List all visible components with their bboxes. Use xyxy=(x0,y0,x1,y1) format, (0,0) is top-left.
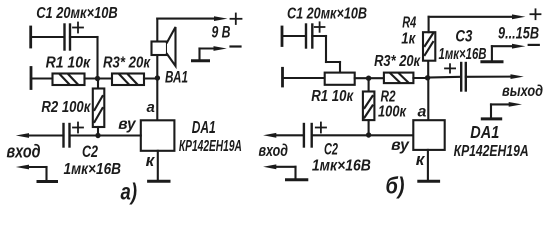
svg-text:R3* 20к: R3* 20к xyxy=(374,53,421,70)
svg-text:ву: ву xyxy=(391,137,410,154)
svg-text:1мк×16В: 1мк×16В xyxy=(312,158,371,175)
svg-text:С3: С3 xyxy=(455,26,472,45)
svg-text:C1 20мк×10В: C1 20мк×10В xyxy=(36,5,118,22)
svg-text:DA1: DA1 xyxy=(192,117,216,137)
svg-text:а: а xyxy=(418,103,427,120)
svg-text:R3* 20к: R3* 20к xyxy=(103,55,151,72)
svg-text:к: к xyxy=(416,150,426,169)
svg-text:С2: С2 xyxy=(324,141,338,159)
svg-text:R2 100к: R2 100к xyxy=(41,99,91,116)
svg-text:б): б) xyxy=(386,173,405,199)
svg-text:КР142ЕН19А: КР142ЕН19А xyxy=(179,138,242,155)
svg-text:ву: ву xyxy=(118,116,137,133)
svg-text:1мк×16В: 1мк×16В xyxy=(439,46,487,63)
svg-text:а: а xyxy=(147,99,155,116)
svg-text:C1 20мк×10В: C1 20мк×10В xyxy=(287,6,367,23)
svg-text:1к: 1к xyxy=(401,31,416,48)
svg-text:R1 10к: R1 10к xyxy=(311,88,354,105)
svg-text:а): а) xyxy=(121,179,138,205)
svg-text:вход: вход xyxy=(259,141,289,160)
svg-text:R1 10к: R1 10к xyxy=(46,55,91,72)
svg-text:1мк×16В: 1мк×16В xyxy=(64,161,122,178)
svg-text:9 В: 9 В xyxy=(212,22,231,41)
svg-text:С2: С2 xyxy=(82,143,98,161)
svg-text:вход: вход xyxy=(7,142,41,162)
svg-text:КР142ЕН19А: КР142ЕН19А xyxy=(454,143,529,160)
svg-text:к: к xyxy=(146,151,156,170)
svg-text:9...15В: 9...15В xyxy=(498,24,539,42)
svg-text:ВА1: ВА1 xyxy=(165,67,188,86)
svg-text:DA1: DA1 xyxy=(470,122,499,142)
svg-text:выход: выход xyxy=(502,83,543,100)
svg-text:R4: R4 xyxy=(402,14,416,31)
svg-text:100к: 100к xyxy=(378,104,407,121)
